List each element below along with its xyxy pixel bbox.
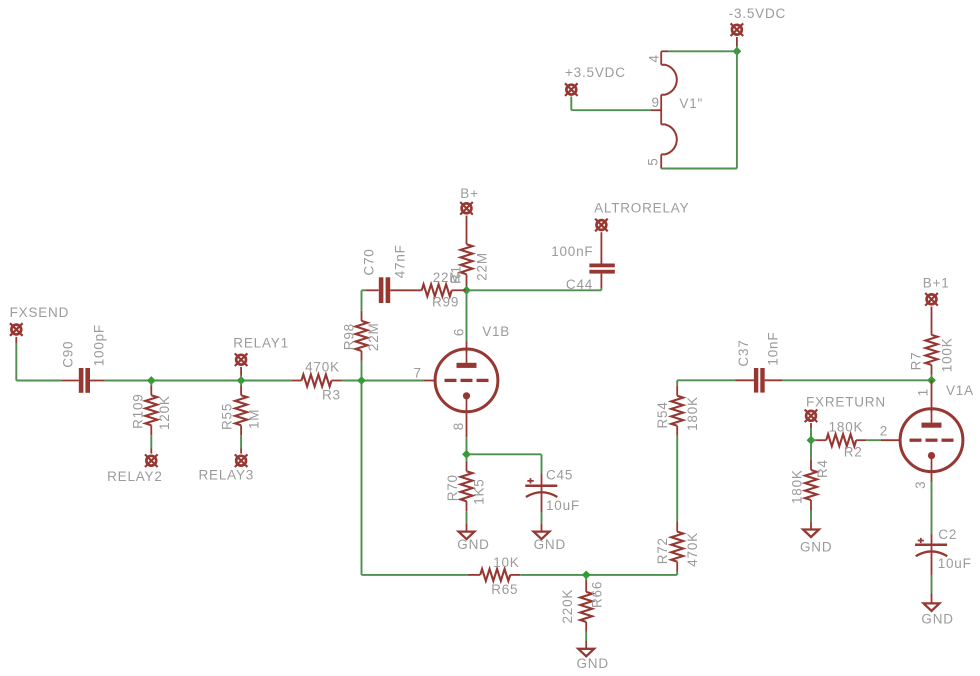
wire main input net: [105, 380, 292, 382]
svg-text:100nF: 100nF: [551, 244, 593, 259]
svg-text:180K: 180K: [685, 396, 700, 431]
node R109 tap: [147, 376, 156, 385]
svg-text:1M: 1M: [247, 409, 262, 429]
svg-text:470K: 470K: [685, 532, 700, 567]
svg-text:R7: R7: [909, 352, 924, 371]
resistor R72 470K: [655, 522, 700, 572]
resistor R4 180K: [790, 440, 831, 522]
triode V1B: [435, 324, 510, 412]
svg-text:R66: R66: [590, 581, 605, 608]
wire feedback drop: [361, 381, 363, 575]
svg-text:+3.5VDC: +3.5VDC: [565, 65, 626, 80]
svg-text:R65: R65: [491, 582, 518, 597]
node plate V1B: [462, 286, 471, 295]
svg-text:5: 5: [646, 157, 661, 165]
capacitor C90 100pF: [61, 324, 107, 393]
resistor R1 22M (plate load): [449, 244, 490, 290]
ground R4: [800, 522, 832, 555]
svg-text:47nF: 47nF: [393, 244, 408, 278]
svg-text:RELAY2: RELAY2: [107, 469, 163, 484]
tube heater V1": [651, 51, 704, 168]
pin 3: [913, 471, 932, 534]
svg-text:C44: C44: [566, 277, 593, 292]
svg-text:100K: 100K: [940, 337, 955, 372]
capacitor C37 10nF: [736, 332, 783, 393]
svg-text:R70: R70: [445, 474, 460, 501]
svg-text:R3: R3: [322, 387, 341, 402]
supply B+1: [923, 276, 950, 335]
port RELAY1: [233, 336, 289, 381]
svg-text:1: 1: [916, 388, 931, 396]
svg-text:4: 4: [647, 54, 662, 62]
triode V1A: [900, 383, 974, 472]
capacitor C2 10uF: [915, 527, 972, 593]
node grid/feedback: [357, 376, 366, 385]
resistor R70 1K5: [445, 454, 487, 523]
svg-text:R55: R55: [220, 403, 235, 430]
svg-text:R2: R2: [844, 445, 863, 460]
wire to V1A grid node: [782, 379, 932, 381]
svg-text:FXSEND: FXSEND: [10, 305, 70, 320]
wire cathode net: [467, 454, 542, 474]
wire heater pin9 net: [571, 97, 650, 111]
wire plate net to C44: [467, 289, 602, 291]
svg-text:R4: R4: [815, 459, 830, 478]
svg-text:8: 8: [451, 422, 466, 430]
svg-text:V1": V1": [679, 96, 703, 111]
node R66 tap: [582, 571, 591, 580]
wire FXSEND to C90: [16, 343, 61, 381]
supply B+: [460, 186, 479, 245]
supply -3.5VDC: [729, 6, 786, 46]
svg-text:R99: R99: [432, 295, 459, 310]
svg-text:470K: 470K: [305, 359, 340, 374]
svg-text:ALTRORELAY: ALTRORELAY: [594, 201, 689, 216]
wire C37 net: [677, 379, 735, 381]
wire R72 column: [676, 380, 678, 575]
svg-text:2: 2: [880, 424, 888, 439]
svg-text:GND: GND: [577, 656, 609, 671]
port FXSEND: [10, 305, 70, 343]
resistor R66 220K: [560, 575, 605, 641]
wire grid net V1B: [342, 380, 425, 382]
svg-text:180K: 180K: [829, 419, 864, 434]
svg-text:6: 6: [452, 328, 467, 336]
svg-text:C90: C90: [61, 341, 76, 368]
svg-text:22M: 22M: [475, 252, 490, 281]
svg-text:GND: GND: [800, 540, 832, 555]
svg-text:V1A: V1A: [946, 383, 974, 398]
svg-text:RELAY3: RELAY3: [199, 468, 255, 483]
svg-text:9: 9: [652, 95, 660, 110]
svg-text:3: 3: [913, 481, 928, 489]
svg-text:7: 7: [414, 366, 422, 381]
svg-text:R98: R98: [342, 323, 357, 350]
svg-text:C37: C37: [736, 339, 751, 366]
svg-text:V1B: V1B: [482, 324, 510, 339]
svg-text:R109: R109: [131, 393, 146, 428]
pin 1: [916, 380, 932, 412]
resistor R54 180K: [655, 386, 700, 436]
svg-text:1K5: 1K5: [472, 478, 487, 504]
svg-text:10nF: 10nF: [766, 332, 781, 366]
capacitor C44 100nF: [551, 232, 615, 292]
svg-text:C45: C45: [546, 468, 573, 483]
resistor R3 470K: [292, 359, 342, 402]
svg-text:B+: B+: [460, 186, 479, 201]
wire to R66 node: [520, 574, 677, 576]
supply +3.5VDC: [565, 65, 626, 96]
svg-text:22M: 22M: [366, 322, 381, 351]
resistor R7 100K: [909, 335, 955, 380]
svg-text:GND: GND: [534, 537, 566, 552]
resistor R65 10K: [468, 555, 520, 597]
svg-text:C70: C70: [362, 248, 377, 275]
svg-text:10K: 10K: [493, 555, 519, 570]
node FXRETURN: [807, 436, 816, 445]
ground R66: [577, 641, 609, 671]
svg-text:10uF: 10uF: [546, 498, 580, 513]
pin 2: [866, 424, 900, 441]
svg-text:R54: R54: [655, 401, 670, 428]
svg-text:180K: 180K: [790, 469, 805, 504]
port RELAY2: [107, 454, 163, 483]
capacitor C70 47nF: [362, 244, 408, 303]
node RELAY1 tap: [237, 376, 246, 385]
svg-text:10uF: 10uF: [938, 556, 972, 571]
pin 6: [452, 290, 467, 341]
node plate V1A: [927, 376, 936, 385]
port FXRETURN: [805, 395, 886, 441]
ground C45: [534, 524, 566, 552]
resistor R55 1M: [220, 381, 262, 454]
svg-text:GND: GND: [457, 537, 489, 552]
pin 8: [451, 412, 467, 455]
svg-text:120K: 120K: [157, 395, 172, 430]
node heater top: [733, 47, 742, 56]
svg-text:R72: R72: [655, 537, 670, 564]
svg-text:FXRETURN: FXRETURN: [806, 395, 886, 410]
svg-text:RELAY1: RELAY1: [233, 336, 289, 351]
resistor R98 22M: [342, 290, 381, 380]
svg-text:B+1: B+1: [923, 276, 950, 291]
capacitor C45 10uF: [525, 468, 580, 524]
wire heater top net: [661, 46, 737, 169]
svg-text:22M: 22M: [433, 270, 462, 285]
resistor R2 180K: [811, 419, 866, 459]
svg-text:C2: C2: [938, 527, 957, 542]
ground C2: [921, 594, 953, 627]
svg-text:GND: GND: [921, 611, 953, 626]
port RELAY3: [199, 454, 255, 482]
ground R70: [457, 524, 489, 552]
svg-text:100pF: 100pF: [92, 324, 107, 366]
supply ALTRORELAY: [594, 201, 689, 232]
resistor R99 22M: [390, 270, 466, 310]
resistor R109 120K: [131, 381, 173, 454]
wire feedback bottom net: [362, 574, 468, 576]
node cathode V1B: [462, 450, 471, 459]
svg-text:-3.5VDC: -3.5VDC: [729, 6, 786, 21]
svg-text:220K: 220K: [560, 589, 575, 624]
